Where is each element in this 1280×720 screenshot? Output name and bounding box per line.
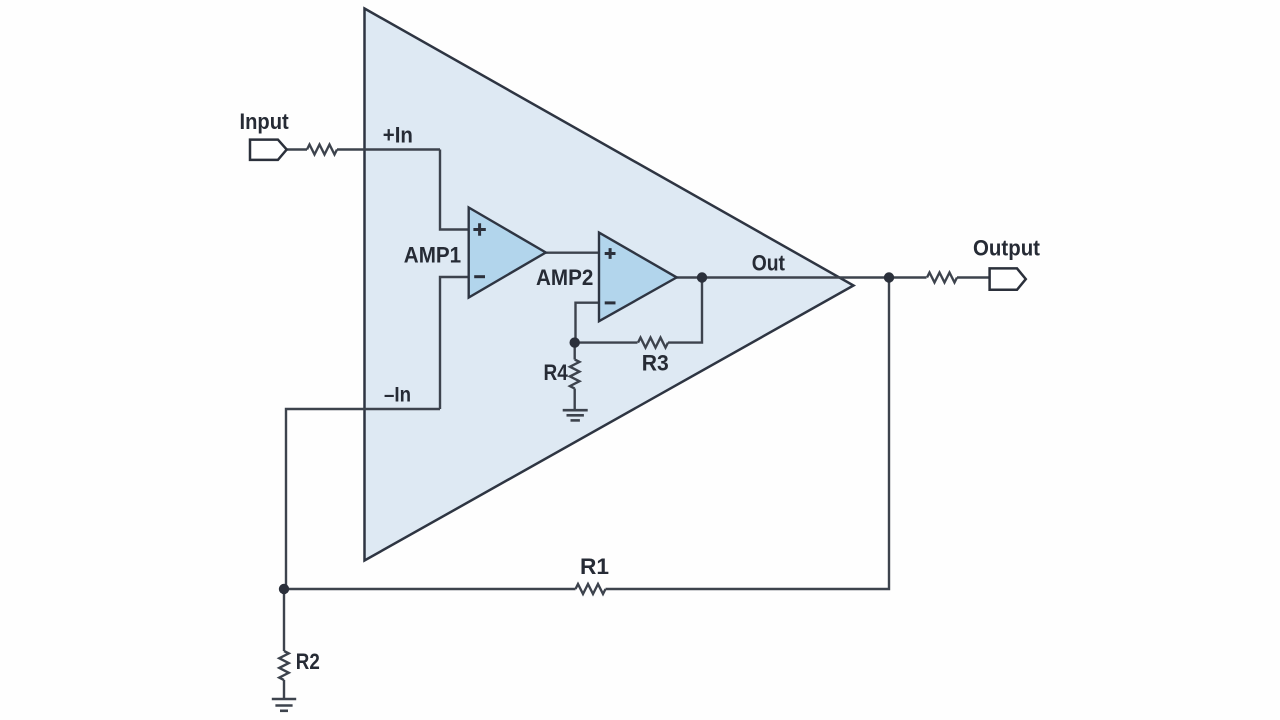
wire: node to R3: [576, 341, 638, 343]
wire: AMP2 output to Out and output node: [677, 276, 890, 278]
svg-text:Output: Output: [973, 236, 1041, 261]
svg-text:R4: R4: [544, 360, 569, 385]
ground symbol below R4: [563, 410, 588, 420]
svg-text:R1: R1: [580, 554, 609, 579]
output terminal: [990, 268, 1026, 289]
wire: resistor to output terminal: [957, 276, 990, 278]
junction node at output/feedback: [884, 272, 894, 282]
wire: R1 to bottom-left node: [284, 588, 576, 590]
wire: R3/R4 node down to R4: [574, 343, 576, 360]
wire: AMP1 - input down to -In run: [440, 277, 469, 409]
op-amp AMP1: [469, 208, 546, 298]
wire: +In down to AMP1 + input: [440, 150, 469, 230]
wire: -In run left and down to bottom node: [286, 409, 440, 589]
wire: R2 to ground: [283, 680, 285, 699]
wire: node down to R2: [283, 589, 285, 651]
wire: feedback down from output node: [606, 278, 890, 590]
svg-text:R2: R2: [296, 649, 320, 674]
composite amplifier body (large op-amp triangle): [365, 9, 854, 561]
wire: output node to output resistor: [889, 276, 927, 278]
wire: input terminal to resistor: [287, 148, 308, 150]
junction node at R1/R2 (-In): [279, 584, 289, 594]
input terminal: [250, 140, 287, 160]
wire: R4 to ground: [574, 389, 576, 410]
wire: resistor to +In corner: [337, 148, 440, 150]
svg-text:Input: Input: [240, 109, 290, 134]
input series resistor: [307, 145, 337, 155]
svg-text:+In: +In: [383, 123, 413, 148]
wire: AMP1 output to AMP2 + input: [546, 251, 600, 253]
junction node at R3/R4: [570, 337, 580, 347]
ground symbol below R2: [272, 699, 296, 711]
svg-text:Out: Out: [752, 251, 786, 276]
resistor R2: [279, 651, 289, 680]
resistor R1: [576, 584, 606, 594]
resistor R3: [638, 338, 668, 348]
output series resistor: [927, 273, 957, 283]
svg-text:–In: –In: [384, 383, 411, 406]
resistor R4: [570, 360, 580, 389]
svg-text:R3: R3: [642, 350, 669, 375]
wire: R3 up to output line: [668, 278, 702, 343]
wire: AMP2 - input to R3/R4 node: [576, 303, 600, 343]
junction node at AMP2 output: [697, 272, 707, 282]
op-amp AMP2: [599, 233, 677, 322]
svg-text:AMP1: AMP1: [404, 243, 461, 268]
svg-text:AMP2: AMP2: [536, 265, 593, 290]
